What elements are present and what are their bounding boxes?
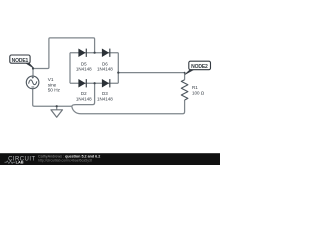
label D5 1N4148 xyxy=(76,61,92,71)
svg-text:D6: D6 xyxy=(102,61,108,66)
svg-text:NODE1: NODE1 xyxy=(12,58,29,64)
svg-text:R1: R1 xyxy=(192,85,198,90)
wire output from bridge right to R1 top xyxy=(118,73,184,80)
diode D6 xyxy=(102,49,110,57)
svg-text:NODE2: NODE2 xyxy=(191,64,208,70)
ground xyxy=(51,110,63,117)
junction ground tap xyxy=(56,105,58,107)
svg-text:1N4148: 1N4148 xyxy=(76,97,92,102)
voltage source V1 xyxy=(26,76,39,89)
junction bridge right output tap xyxy=(117,72,119,74)
junction between D5 and D6 (top feed) xyxy=(94,52,96,54)
wire ground stub xyxy=(56,106,58,110)
svg-text:50 Hz: 50 Hz xyxy=(48,87,61,92)
svg-text:1N4148: 1N4148 xyxy=(97,97,113,102)
diode D3 xyxy=(102,79,110,87)
svg-text:LAB: LAB xyxy=(16,160,24,165)
node NODE2 label xyxy=(185,61,210,74)
junction at R1 top / NODE2 xyxy=(184,72,186,74)
svg-text:http://circuitlab.com/c4baef6c: http://circuitlab.com/c4baef6ca5y3t xyxy=(38,159,92,163)
diode D2 xyxy=(79,79,87,87)
svg-text:D3: D3 xyxy=(102,91,108,96)
label V1 sine 50 Hz xyxy=(48,77,61,92)
wire V1 bottom stub and bottom wire to junction xyxy=(33,89,72,107)
label D3 1N4148 xyxy=(97,91,113,102)
svg-text:1N4148: 1N4148 xyxy=(76,67,92,72)
node A junction at NODE1 / V1 top xyxy=(32,67,34,69)
wire bridge left vertical xyxy=(69,53,71,83)
label D6 1N4148 xyxy=(97,61,113,71)
label R1 100 ohm xyxy=(192,85,205,95)
wire return from bottom middle junction to bottom node xyxy=(72,83,95,106)
svg-text:D5: D5 xyxy=(81,61,87,66)
svg-text:1N4148: 1N4148 xyxy=(97,67,113,72)
diode D5 xyxy=(79,49,87,57)
svg-text:D2: D2 xyxy=(81,91,87,96)
watermark bar xyxy=(0,153,220,165)
wire bridge top branch xyxy=(70,52,118,54)
wire bridge right vertical xyxy=(117,53,119,83)
wire V1 top stub xyxy=(32,69,34,77)
resistor R1 zigzag xyxy=(181,80,188,100)
wire bridge bottom branch xyxy=(70,82,118,84)
label D2 1N4148 xyxy=(76,91,92,102)
wire from bottom node to R1 bottom xyxy=(72,100,185,114)
junction between D2 and D3 (bottom return) xyxy=(94,82,96,84)
node NODE1 label xyxy=(10,55,34,68)
svg-text:100 Ω: 100 Ω xyxy=(192,90,205,95)
wire top feed from NODE1 junction up and over to bridge top middle xyxy=(33,38,95,69)
